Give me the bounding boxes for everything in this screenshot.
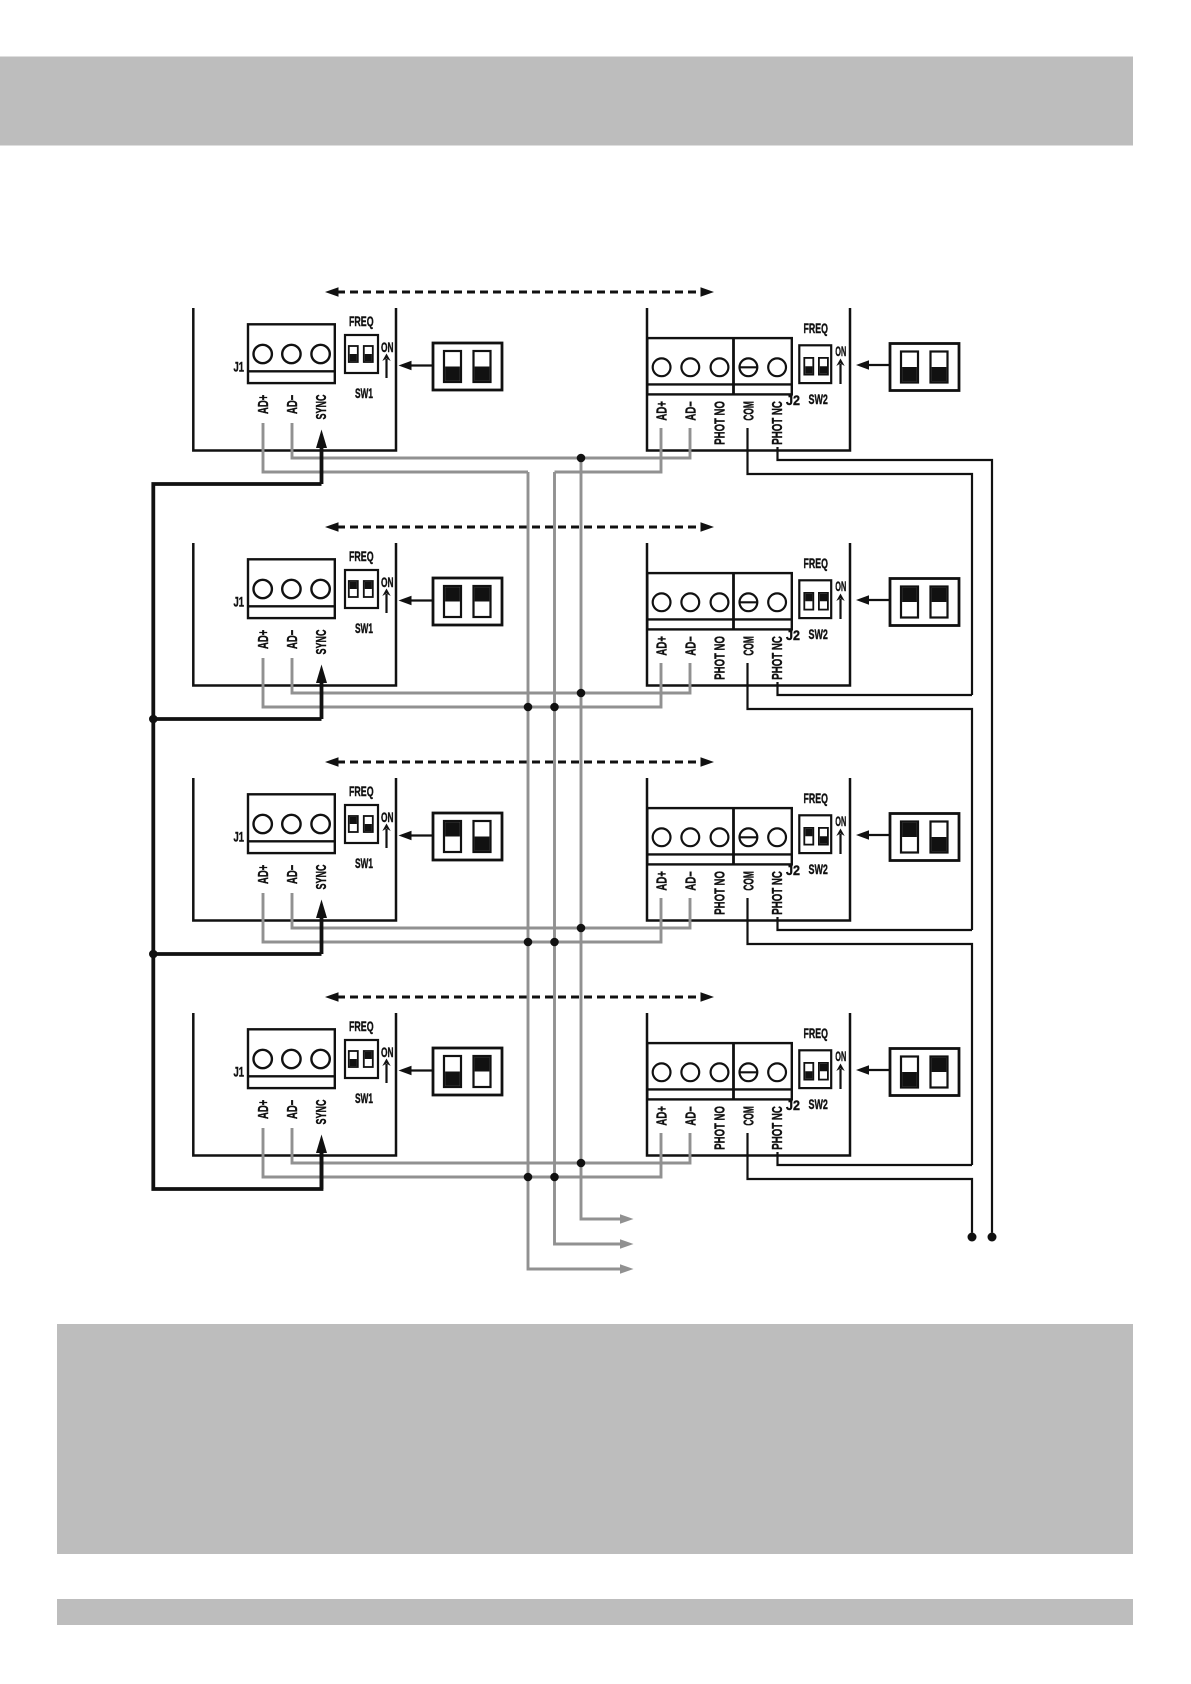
wire AD+ TX1 to AD+ bus bbox=[263, 423, 528, 472]
wire PHOT NC RX1 to output bus bbox=[778, 447, 993, 1233]
AD- bus output arrow bbox=[620, 1214, 634, 1224]
SW2 setting callout (row 4) bbox=[890, 1049, 959, 1096]
dip switch SW1 (TX2) bbox=[345, 570, 378, 608]
dip switch SW2 (RX3) bbox=[799, 815, 831, 853]
wire COM RX2 to PHOT NC RX3 bbox=[748, 663, 973, 930]
svg-text:ON: ON bbox=[381, 1044, 394, 1060]
junction SYNC row 2 bbox=[149, 715, 158, 724]
svg-text:SW1: SW1 bbox=[355, 620, 373, 636]
SW1 setting callout (row 1) bbox=[433, 343, 502, 390]
junction SYNC row 3 bbox=[149, 950, 158, 959]
svg-text:AD+: AD+ bbox=[255, 865, 272, 884]
svg-text:FREQ: FREQ bbox=[349, 1018, 374, 1034]
svg-text:ON: ON bbox=[381, 574, 394, 590]
TX2 device box bbox=[193, 543, 396, 686]
terminal J1 (TX2) bbox=[248, 559, 335, 618]
svg-text:AD−: AD− bbox=[682, 871, 699, 891]
RX4 device box bbox=[647, 1013, 850, 1156]
terminal J2 (RX4) bbox=[647, 1043, 792, 1099]
svg-text:SW2: SW2 bbox=[809, 391, 829, 407]
svg-text:PHOT NO: PHOT NO bbox=[712, 871, 729, 915]
output terminal dot (PHOT NC chain) bbox=[988, 1233, 997, 1242]
callout arrow SW1 (row 2) bbox=[399, 596, 434, 606]
dip switch SW2 (RX1) bbox=[799, 345, 831, 383]
wire AD+ (row 3) bbox=[263, 893, 661, 942]
wire AD- (row 3) bbox=[292, 893, 690, 928]
AD+ bus A output arrow bbox=[620, 1264, 634, 1274]
svg-text:SYNC: SYNC bbox=[313, 864, 330, 889]
terminal J1 (TX1) bbox=[248, 324, 335, 383]
svg-text:FREQ: FREQ bbox=[804, 790, 828, 806]
svg-text:SW2: SW2 bbox=[809, 1096, 829, 1112]
TX3 device box bbox=[193, 778, 396, 921]
wire PHOT NC (RX4) bbox=[778, 1152, 973, 1165]
svg-text:AD−: AD− bbox=[682, 1106, 699, 1126]
terminal J1 (TX4) bbox=[248, 1029, 335, 1088]
SYNC feed arrow (TX3) bbox=[316, 900, 327, 955]
junction AD+ bus B (row 3) bbox=[550, 938, 559, 947]
ON direction arrow (TX2) bbox=[382, 589, 390, 614]
svg-text:AD+: AD+ bbox=[654, 1106, 671, 1126]
svg-text:J1: J1 bbox=[234, 595, 245, 610]
svg-text:ON: ON bbox=[381, 809, 394, 825]
svg-text:SYNC: SYNC bbox=[313, 1099, 330, 1124]
svg-text:COM: COM bbox=[740, 1106, 757, 1126]
terminal J2 (RX1) bbox=[647, 338, 792, 394]
svg-text:SW1: SW1 bbox=[355, 855, 373, 871]
svg-text:J2: J2 bbox=[786, 1098, 800, 1113]
wire AD+ (row 4) bbox=[263, 1128, 661, 1177]
junction AD+ bus B (row 4) bbox=[550, 1173, 559, 1182]
ON direction arrow (RX4) bbox=[836, 1064, 844, 1090]
dashed sync-range arrow (row 3) bbox=[325, 757, 714, 767]
AD+ bus A (gray vertical x=528) bbox=[528, 472, 620, 1269]
wire AD+ (row 2) bbox=[263, 658, 661, 707]
junction AD+ bus A (row 4) bbox=[524, 1173, 533, 1182]
svg-text:J2: J2 bbox=[786, 393, 800, 408]
callout arrow SW2 (row 4) bbox=[856, 1065, 890, 1075]
svg-text:AD−: AD− bbox=[284, 1100, 301, 1119]
TX4 device box bbox=[193, 1013, 396, 1156]
SW1 setting callout (row 3) bbox=[433, 813, 502, 860]
svg-text:AD+: AD+ bbox=[654, 636, 671, 656]
callout arrow SW2 (row 2) bbox=[856, 595, 890, 605]
svg-text:SW2: SW2 bbox=[809, 861, 829, 877]
top redacted gray bar bbox=[0, 57, 1133, 146]
dip switch SW1 (TX1) bbox=[345, 335, 378, 373]
svg-text:FREQ: FREQ bbox=[804, 320, 828, 336]
bottom redacted gray strip bbox=[57, 1599, 1133, 1625]
wire AD- (row 4) bbox=[292, 1128, 690, 1163]
wire COM RX1 to PHOT NC RX2 bbox=[748, 428, 973, 695]
RX2 device box bbox=[647, 543, 850, 686]
junction AD- bus (row 2) bbox=[577, 689, 586, 698]
svg-text:ON: ON bbox=[835, 578, 846, 594]
svg-text:AD+: AD+ bbox=[255, 630, 272, 649]
junction AD- bus (row 3) bbox=[577, 924, 586, 933]
ON direction arrow (TX4) bbox=[382, 1059, 390, 1084]
svg-text:FREQ: FREQ bbox=[349, 548, 374, 564]
wire PHOT NC (RX2) bbox=[778, 682, 973, 695]
svg-text:AD+: AD+ bbox=[654, 401, 671, 421]
svg-text:PHOT NO: PHOT NO bbox=[712, 636, 729, 680]
terminal J2 (RX2) bbox=[647, 573, 792, 629]
SYNC branch row 3 bbox=[153, 952, 321, 956]
AD+ bus B (gray vertical x=554.5) bbox=[555, 472, 621, 1244]
AD+ bus B output arrow bbox=[620, 1239, 634, 1249]
svg-text:FREQ: FREQ bbox=[804, 1025, 828, 1041]
dip switch SW1 (TX3) bbox=[345, 805, 378, 843]
ON direction arrow (RX3) bbox=[836, 829, 844, 855]
output terminal dot (COM chain) bbox=[968, 1233, 977, 1242]
svg-text:PHOT NC: PHOT NC bbox=[769, 401, 786, 445]
svg-text:PHOT NO: PHOT NO bbox=[712, 401, 729, 445]
SYNC branch row 2 bbox=[153, 717, 321, 721]
TX1 device box bbox=[193, 308, 396, 451]
ON direction arrow (RX2) bbox=[836, 594, 844, 620]
svg-text:PHOT NC: PHOT NC bbox=[769, 871, 786, 915]
wire AD+ bus to RX1 bbox=[555, 428, 662, 472]
SYNC feed arrow (TX2) bbox=[316, 665, 327, 720]
svg-text:PHOT NC: PHOT NC bbox=[769, 1106, 786, 1150]
svg-text:AD−: AD− bbox=[284, 630, 301, 649]
svg-text:COM: COM bbox=[740, 636, 757, 656]
callout arrow SW1 (row 3) bbox=[399, 831, 434, 841]
svg-text:ON: ON bbox=[381, 339, 394, 355]
junction AD- bus (row 4) bbox=[577, 1159, 586, 1168]
SW1 setting callout (row 2) bbox=[433, 578, 502, 625]
junction AD- bus (row 1) bbox=[577, 454, 586, 463]
svg-text:J2: J2 bbox=[786, 628, 800, 643]
bottom redacted gray box bbox=[57, 1324, 1133, 1554]
SW2 setting callout (row 3) bbox=[890, 814, 959, 861]
svg-text:ON: ON bbox=[835, 1048, 846, 1064]
svg-text:AD+: AD+ bbox=[255, 395, 272, 414]
wire AD- (row 2) bbox=[292, 658, 690, 693]
svg-text:SW1: SW1 bbox=[355, 385, 373, 401]
svg-text:AD−: AD− bbox=[682, 636, 699, 656]
SW2 setting callout (row 1) bbox=[890, 344, 959, 391]
SW2 setting callout (row 2) bbox=[890, 579, 959, 626]
dashed sync-range arrow (row 2) bbox=[325, 522, 714, 532]
svg-text:SW1: SW1 bbox=[355, 1090, 373, 1106]
wire PHOT NC (RX3) bbox=[778, 917, 973, 930]
SYNC bus (left, black) bbox=[153, 484, 321, 1189]
svg-text:COM: COM bbox=[740, 401, 757, 421]
dip switch SW2 (RX2) bbox=[799, 580, 831, 618]
dashed sync-range arrow (row 4) bbox=[325, 992, 714, 1002]
svg-text:AD−: AD− bbox=[284, 865, 301, 884]
callout arrow SW1 (row 1) bbox=[399, 361, 434, 371]
SYNC feed arrow (TX4) bbox=[316, 1135, 327, 1190]
svg-text:PHOT NO: PHOT NO bbox=[712, 1106, 729, 1150]
SW1 setting callout (row 4) bbox=[433, 1048, 502, 1095]
ON direction arrow (RX1) bbox=[836, 359, 844, 385]
callout arrow SW2 (row 3) bbox=[856, 830, 890, 840]
svg-text:AD+: AD+ bbox=[654, 871, 671, 891]
svg-text:SYNC: SYNC bbox=[313, 629, 330, 654]
terminal J1 (TX3) bbox=[248, 794, 335, 853]
wire COM RX3 to PHOT NC RX4 bbox=[748, 898, 973, 1165]
svg-text:FREQ: FREQ bbox=[804, 555, 828, 571]
dip switch SW1 (TX4) bbox=[345, 1040, 378, 1078]
svg-text:AD−: AD− bbox=[284, 395, 301, 414]
svg-text:FREQ: FREQ bbox=[349, 313, 374, 329]
terminal J2 (RX3) bbox=[647, 808, 792, 864]
RX1 device box bbox=[647, 308, 850, 451]
svg-text:ON: ON bbox=[835, 813, 846, 829]
ON direction arrow (TX1) bbox=[382, 354, 390, 379]
svg-text:J1: J1 bbox=[234, 360, 245, 375]
dashed sync-range arrow (row 1) bbox=[325, 287, 714, 297]
svg-text:AD+: AD+ bbox=[255, 1100, 272, 1119]
RX3 device box bbox=[647, 778, 850, 921]
SYNC feed arrow (TX1) bbox=[316, 430, 327, 485]
dip switch SW2 (RX4) bbox=[799, 1050, 831, 1088]
svg-text:FREQ: FREQ bbox=[349, 783, 374, 799]
wire COM RX4 to output bbox=[748, 1133, 973, 1233]
svg-text:J2: J2 bbox=[786, 863, 800, 878]
ON direction arrow (TX3) bbox=[382, 824, 390, 849]
svg-text:ON: ON bbox=[835, 343, 846, 359]
junction AD+ bus A (row 2) bbox=[524, 703, 533, 712]
AD- bus (gray vertical x=581) bbox=[581, 458, 620, 1219]
svg-text:SW2: SW2 bbox=[809, 626, 829, 642]
wire AD- (row 1) bbox=[292, 423, 690, 458]
junction AD+ bus A (row 3) bbox=[524, 938, 533, 947]
svg-text:J1: J1 bbox=[234, 830, 245, 845]
callout arrow SW1 (row 4) bbox=[399, 1066, 434, 1076]
svg-text:PHOT NC: PHOT NC bbox=[769, 636, 786, 680]
callout arrow SW2 (row 1) bbox=[856, 360, 890, 370]
svg-text:AD−: AD− bbox=[682, 401, 699, 421]
svg-text:J1: J1 bbox=[234, 1065, 245, 1080]
svg-text:SYNC: SYNC bbox=[313, 394, 330, 419]
svg-text:COM: COM bbox=[740, 871, 757, 891]
junction AD+ bus B (row 2) bbox=[550, 703, 559, 712]
